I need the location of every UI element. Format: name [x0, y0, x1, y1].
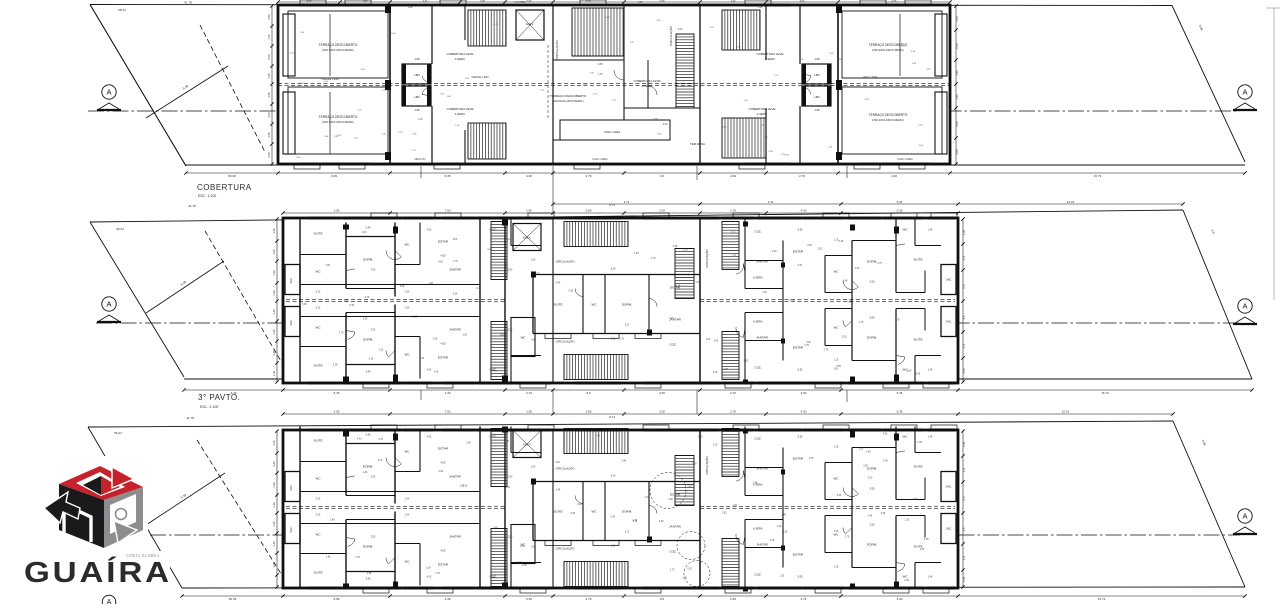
svg-text:5.35: 5.35 — [453, 294, 458, 296]
svg-text:SUITE: SUITE — [913, 338, 922, 342]
svg-text:15.79: 15.79 — [1101, 391, 1109, 395]
svg-text:A.SERV.: A.SERV. — [455, 57, 466, 61]
svg-text:5.15: 5.15 — [316, 499, 321, 501]
band 2 dimension speckle — [302, 232, 921, 376]
svg-text:WC: WC — [316, 477, 322, 481]
band 3 upper left unit walls — [300, 427, 480, 508]
band 2 section marker A right — [1233, 299, 1257, 324]
svg-text:DORM.: DORM. — [622, 303, 632, 307]
svg-text:2.00: 2.00 — [772, 251, 777, 253]
svg-text:WC: WC — [316, 270, 322, 274]
svg-text:2.55: 2.55 — [687, 569, 692, 571]
band 1 section marker A right — [1233, 85, 1257, 110]
svg-text:1.48: 1.48 — [669, 318, 674, 320]
svg-text:2.05: 2.05 — [334, 410, 340, 414]
svg-text:4.50: 4.50 — [441, 462, 446, 465]
band 2 left balconies — [285, 265, 300, 337]
svg-text:DORM.: DORM. — [363, 465, 373, 469]
svg-text:5.15: 5.15 — [316, 515, 321, 517]
svg-text:1.48: 1.48 — [595, 436, 600, 438]
svg-text:3.21: 3.21 — [625, 325, 630, 327]
svg-text:2.00: 2.00 — [508, 270, 513, 272]
svg-text:WALL 1.80M: WALL 1.80M — [863, 76, 877, 79]
svg-text:2.55: 2.55 — [673, 246, 678, 248]
svg-text:COBERTURA: COBERTURA — [197, 183, 252, 192]
svg-text:1.75: 1.75 — [859, 322, 864, 324]
band 2 upper left unit walls — [300, 220, 480, 301]
svg-text:1.48: 1.48 — [330, 520, 335, 522]
svg-text:WC: WC — [834, 270, 840, 274]
svg-text:WC: WC — [316, 533, 322, 537]
svg-text:3.44: 3.44 — [556, 283, 561, 285]
band 3 circulation labels — [553, 430, 575, 588]
svg-text:COBERTURA LEVE: COBERTURA LEVE — [633, 79, 660, 83]
svg-text:1.20: 1.20 — [462, 335, 467, 337]
svg-text:4.05: 4.05 — [427, 437, 432, 439]
svg-text:5.35: 5.35 — [798, 576, 803, 579]
svg-text:ESC.: 1:100: ESC.: 1:100 — [200, 405, 218, 409]
svg-text:WC: WC — [405, 560, 411, 564]
svg-text:4.36: 4.36 — [526, 174, 532, 178]
svg-text:SUITE: SUITE — [313, 439, 322, 443]
svg-text:7.50: 7.50 — [445, 209, 451, 213]
svg-text:2.50: 2.50 — [267, 14, 271, 20]
svg-text:3.05: 3.05 — [413, 317, 418, 319]
svg-text:2.50: 2.50 — [870, 524, 875, 527]
band 1 left unit cobertura leve rooms — [432, 5, 474, 164]
svg-text:2.75: 2.75 — [809, 458, 814, 460]
band 3 core full-height wall — [502, 427, 508, 589]
band 2 inner lot diagonal — [146, 231, 285, 368]
svg-text:WC: WC — [405, 450, 411, 454]
svg-text:CASA 1 AREA: CASA 1 AREA — [592, 158, 608, 161]
svg-text:A.SERV.: A.SERV. — [765, 57, 776, 61]
svg-text:A.SERV.: A.SERV. — [753, 276, 763, 280]
scan edge right — [1266, 8, 1280, 300]
svg-text:2.75: 2.75 — [365, 297, 370, 299]
svg-text:7.50: 7.50 — [445, 410, 451, 414]
svg-text:COBERTURA LEVE: COBERTURA LEVE — [748, 107, 775, 111]
svg-text:1.8: 1.8 — [962, 556, 966, 560]
band 2 bottom dimension row — [182, 388, 1253, 395]
svg-text:1.75: 1.75 — [619, 339, 624, 341]
svg-text:CIRCULAÇÃO: CIRCULAÇÃO — [556, 466, 576, 471]
svg-text:3.05: 3.05 — [453, 239, 458, 241]
band 1 section marker A left — [97, 85, 121, 110]
svg-text:SAC.: SAC. — [946, 485, 952, 489]
band 2 central lower wc room — [511, 318, 677, 357]
band 1 left stairs upper — [468, 10, 506, 46]
svg-text:5.35: 5.35 — [400, 286, 405, 288]
svg-text:5.00: 5.00 — [955, 121, 959, 127]
svg-text:1.50: 1.50 — [814, 108, 820, 112]
svg-text:SUITE: SUITE — [913, 465, 922, 469]
svg-text:WC: WC — [592, 510, 598, 514]
band 3 upper core walls — [316, 427, 541, 501]
svg-text:4.63: 4.63 — [678, 28, 683, 31]
band 2 central stair flight — [491, 222, 507, 380]
svg-text:SAC.: SAC. — [946, 320, 952, 324]
svg-text:2.55: 2.55 — [817, 249, 822, 251]
logo cube top face red arrow — [59, 466, 143, 500]
svg-text:CIRCULAÇÃO: CIRCULAÇÃO — [556, 339, 576, 344]
svg-text:56.44: 56.44 — [114, 431, 122, 435]
svg-text:5.35: 5.35 — [897, 209, 903, 213]
svg-text:LBO: LBO — [414, 95, 420, 99]
band 2 outer wall poche segments — [343, 217, 955, 385]
svg-text:2.40: 2.40 — [438, 471, 443, 473]
band 3 right balconies — [941, 472, 956, 544]
svg-text:1.25: 1.25 — [962, 229, 966, 235]
svg-text:6.30: 6.30 — [611, 269, 616, 271]
svg-text:2.55: 2.55 — [722, 513, 727, 515]
svg-text:2.40: 2.40 — [505, 487, 510, 489]
svg-text:CIRCULAÇÃO: CIRCULAÇÃO — [556, 546, 576, 551]
svg-text:56.44: 56.44 — [116, 227, 124, 231]
svg-text:1.48: 1.48 — [753, 483, 758, 485]
svg-text:4.05: 4.05 — [427, 370, 432, 372]
svg-text:5.35: 5.35 — [897, 391, 903, 395]
extension line x847 — [846, 166, 848, 402]
band 3 central block window sills — [545, 541, 661, 546]
svg-text:CIRCULAÇÃO: CIRCULAÇÃO — [704, 456, 709, 475]
svg-text:56.38: 56.38 — [229, 597, 237, 601]
svg-text:CIRCULAÇÃO: CIRCULAÇÃO — [704, 249, 709, 268]
band 2 elevator room — [513, 224, 541, 251]
svg-text:SUITE: SUITE — [913, 258, 922, 262]
svg-text:3.18: 3.18 — [426, 567, 431, 569]
svg-text:3.05: 3.05 — [466, 443, 471, 445]
band 3 central stairs lower — [564, 562, 628, 587]
svg-text:4.00: 4.00 — [801, 209, 807, 213]
svg-text:5.15: 5.15 — [316, 308, 321, 310]
svg-text:1.48: 1.48 — [928, 437, 933, 439]
svg-text:COZ.: COZ. — [754, 437, 761, 441]
svg-text:WC: WC — [316, 326, 322, 330]
svg-text:SAC.: SAC. — [289, 277, 293, 283]
svg-text:1.8: 1.8 — [962, 256, 966, 260]
svg-text:2.76: 2.76 — [801, 597, 807, 601]
band 2 lower left unit walls — [300, 301, 480, 382]
svg-text:COBERTURA LEVE: COBERTURA LEVE — [446, 107, 473, 111]
svg-text:2.00: 2.00 — [508, 330, 513, 332]
svg-text:6.5: 6.5 — [962, 496, 966, 500]
svg-text:ELEV.: ELEV. — [526, 22, 534, 26]
band 3 vertical dimension column left — [272, 429, 279, 588]
svg-text:1.50: 1.50 — [405, 499, 410, 501]
band 2 windows bottom — [308, 382, 923, 384]
svg-text:1.50: 1.50 — [526, 410, 532, 414]
band 1 central extra walls — [553, 60, 700, 140]
svg-text:2.79: 2.79 — [586, 174, 592, 178]
svg-text:2.75: 2.75 — [845, 537, 850, 539]
svg-text:(USO EXCLUSIVO RESID.): (USO EXCLUSIVO RESID.) — [322, 48, 354, 52]
svg-text:1.48: 1.48 — [917, 442, 922, 444]
logo cube right face gray arrow — [104, 487, 143, 548]
svg-text:6.71: 6.71 — [609, 415, 615, 419]
svg-text:1.48: 1.48 — [843, 281, 848, 283]
band 3 dimension speckle — [326, 434, 929, 582]
svg-text:JANTAR: JANTAR — [669, 525, 682, 529]
svg-text:2.00: 2.00 — [420, 358, 425, 360]
svg-text:2.75: 2.75 — [651, 258, 656, 260]
svg-text:2.40: 2.40 — [366, 578, 371, 581]
svg-text:(USO EXCLUSIVO RESID.): (USO EXCLUSIVO RESID.) — [872, 118, 904, 122]
band 2 centerline A-A — [96, 322, 1240, 324]
svg-text:1.45: 1.45 — [955, 70, 959, 76]
svg-text:1.50: 1.50 — [405, 292, 410, 294]
svg-text:1.60: 1.60 — [272, 461, 276, 467]
svg-text:15.72: 15.72 — [1098, 597, 1106, 601]
band 2 right balconies — [941, 265, 956, 337]
svg-text:2.00: 2.00 — [433, 339, 438, 341]
svg-text:WC: WC — [834, 533, 840, 537]
svg-text:4.05: 4.05 — [427, 577, 432, 579]
band 1 left terrace walls — [283, 5, 391, 164]
band 1 window sill protrusions — [294, 0, 931, 169]
svg-text:2.55: 2.55 — [371, 270, 376, 272]
band 2 right pair units — [700, 218, 941, 385]
svg-text:15.79: 15.79 — [1094, 174, 1102, 178]
svg-text:5.35: 5.35 — [897, 200, 903, 204]
band 3 lot boundary — [88, 415, 1245, 588]
svg-text:2.40: 2.40 — [357, 438, 362, 440]
svg-text:1.48: 1.48 — [428, 283, 433, 285]
band 2 section marker A left — [97, 297, 121, 322]
svg-text:SUITE: SUITE — [553, 303, 562, 307]
svg-text:5.35: 5.35 — [798, 436, 803, 439]
svg-text:2.00: 2.00 — [508, 477, 513, 479]
svg-text:4.5: 4.5 — [962, 315, 966, 319]
svg-text:ESTAR: ESTAR — [793, 553, 804, 557]
svg-text:1.50: 1.50 — [405, 308, 410, 310]
svg-text:JANTAR: JANTAR — [449, 268, 462, 272]
svg-text:1.50: 1.50 — [526, 209, 532, 213]
svg-text:2.55: 2.55 — [371, 330, 376, 332]
svg-text:2.75: 2.75 — [731, 233, 736, 235]
svg-text:3° PAVTO.: 3° PAVTO. — [198, 393, 240, 402]
svg-text:2.40: 2.40 — [476, 288, 481, 290]
svg-text:2.50: 2.50 — [870, 317, 875, 320]
svg-text:9.6: 9.6 — [660, 174, 665, 178]
band 2 window sill protrusions — [363, 213, 957, 388]
band 2 circulation labels — [553, 218, 575, 383]
svg-text:2.79: 2.79 — [526, 391, 532, 395]
band 1 right terrace walls — [836, 5, 947, 164]
svg-text:4.05: 4.05 — [916, 374, 921, 376]
band 3 lower core walls — [316, 515, 541, 589]
svg-text:CASA 1 AREA: CASA 1 AREA — [897, 158, 913, 161]
band 3 right pair units — [700, 427, 941, 592]
svg-text:1.8: 1.8 — [962, 344, 966, 348]
band 1 central stair column — [676, 34, 694, 108]
svg-text:5.15: 5.15 — [316, 292, 321, 294]
svg-text:4.5: 4.5 — [962, 527, 966, 531]
svg-text:TERRAÇO DESCOBERTO: TERRAÇO DESCOBERTO — [550, 94, 587, 98]
svg-text:2.55: 2.55 — [367, 573, 372, 575]
svg-text:2.40: 2.40 — [883, 461, 888, 463]
svg-text:A.SERV.: A.SERV. — [757, 112, 768, 116]
svg-text:MEIO FIO: MEIO FIO — [415, 158, 426, 161]
svg-text:4.36: 4.36 — [445, 391, 451, 395]
svg-text:3.05: 3.05 — [687, 487, 692, 489]
svg-text:5.35: 5.35 — [798, 229, 803, 232]
band 3 central rooms crossing party line — [531, 476, 700, 548]
svg-text:WC: WC — [405, 353, 411, 357]
svg-text:4.05: 4.05 — [555, 462, 560, 464]
svg-text:1.48: 1.48 — [723, 369, 728, 371]
svg-text:TERRAÇO DESCOBERTO: TERRAÇO DESCOBERTO — [869, 113, 908, 117]
svg-text:1.60: 1.60 — [272, 562, 276, 568]
svg-text:4.00: 4.00 — [801, 391, 807, 395]
svg-text:4.05: 4.05 — [438, 261, 443, 263]
svg-text:JANTAR: JANTAR — [449, 535, 462, 539]
svg-text:3.05: 3.05 — [847, 301, 852, 303]
svg-text:1.20: 1.20 — [379, 349, 384, 351]
svg-text:1.40: 1.40 — [272, 270, 276, 276]
svg-text:2.05: 2.05 — [334, 209, 340, 213]
svg-text:2.00: 2.00 — [868, 478, 873, 480]
svg-text:DORM.: DORM. — [867, 336, 877, 340]
svg-text:1.48: 1.48 — [777, 526, 782, 528]
svg-text:5.35: 5.35 — [842, 337, 847, 339]
svg-text:1.80: 1.80 — [363, 0, 368, 3]
svg-text:1.48: 1.48 — [621, 460, 626, 462]
svg-text:SAC.: SAC. — [289, 484, 293, 490]
svg-text:WC: WC — [592, 303, 598, 307]
svg-text:2.40: 2.40 — [362, 232, 367, 234]
svg-text:CIRCULAÇÃO: CIRCULAÇÃO — [556, 259, 576, 264]
svg-text:5.35: 5.35 — [526, 597, 532, 601]
svg-text:GUAÍRA: GUAÍRA — [24, 555, 172, 589]
band 2 central rooms crossing party line — [531, 269, 700, 341]
band 3 central right stair flight — [675, 456, 694, 506]
svg-text:6.99: 6.99 — [334, 597, 340, 601]
logo white backing — [18, 456, 170, 588]
svg-text:1.45: 1.45 — [955, 94, 959, 100]
svg-text:A: A — [106, 300, 111, 309]
band 1 left stairs lower — [468, 123, 506, 159]
logo GUAIRA wordmark — [24, 555, 172, 589]
svg-text:2.00: 2.00 — [744, 361, 749, 363]
svg-text:1.40: 1.40 — [272, 309, 276, 315]
svg-text:JANTAR: JANTAR — [449, 475, 462, 479]
svg-text:DORM.: DORM. — [363, 545, 373, 549]
svg-text:2.40: 2.40 — [366, 434, 371, 437]
svg-text:1.20: 1.20 — [713, 445, 718, 447]
extension line x553 — [552, 166, 554, 414]
svg-text:2.50: 2.50 — [870, 281, 875, 284]
svg-text:1.48: 1.48 — [363, 472, 368, 474]
svg-text:5.35: 5.35 — [586, 0, 591, 3]
svg-text:2.40: 2.40 — [610, 516, 615, 518]
svg-text:2.00: 2.00 — [659, 410, 665, 414]
band 2 lot boundary — [90, 203, 1252, 379]
svg-text:TERRAÇO DESCOBERTO: TERRAÇO DESCOBERTO — [319, 115, 358, 119]
svg-text:WC: WC — [903, 575, 909, 579]
svg-text:2.40: 2.40 — [706, 339, 711, 341]
svg-text:1.25: 1.25 — [962, 368, 966, 374]
svg-text:2.40: 2.40 — [378, 460, 383, 462]
svg-text:5.35: 5.35 — [806, 342, 811, 344]
svg-text:5.35: 5.35 — [834, 531, 839, 533]
svg-text:CASA 1 AREA: CASA 1 AREA — [604, 131, 620, 134]
band 2 building outer walls — [283, 218, 958, 383]
extension line x421 — [420, 166, 422, 400]
svg-text:2.00: 2.00 — [907, 371, 912, 373]
svg-text:WC: WC — [903, 228, 909, 232]
svg-text:6.39: 6.39 — [331, 174, 337, 178]
svg-text:2.75: 2.75 — [824, 349, 829, 351]
band 3 inner lot diagonal — [146, 440, 290, 588]
svg-text:1.75: 1.75 — [339, 332, 344, 334]
svg-text:9.6: 9.6 — [586, 391, 591, 395]
band 1 party wall dashed — [278, 84, 950, 86]
svg-text:4.05: 4.05 — [924, 539, 929, 541]
svg-text:1.40: 1.40 — [272, 482, 276, 488]
svg-text:SAC.: SAC. — [946, 278, 952, 282]
svg-text:2.76: 2.76 — [730, 391, 736, 395]
svg-text:2.40: 2.40 — [797, 265, 802, 267]
band 1 left unit LBO rooms — [402, 57, 431, 112]
svg-text:2.40: 2.40 — [366, 227, 371, 230]
svg-text:1.75: 1.75 — [598, 74, 603, 76]
svg-text:4.00: 4.00 — [891, 174, 897, 178]
band 1 vertical dimension column left — [267, 4, 274, 165]
svg-text:ESTAR: ESTAR — [793, 346, 804, 350]
svg-text:1.26: 1.26 — [272, 440, 276, 446]
band 3 vertical dimension column right — [961, 429, 966, 588]
svg-text:4.00: 4.00 — [897, 597, 903, 601]
svg-text:ESTAR: ESTAR — [670, 493, 681, 497]
band 1 vertical dimension column right — [954, 4, 959, 165]
svg-text:COZ.: COZ. — [669, 343, 676, 347]
svg-text:2.40: 2.40 — [366, 371, 371, 374]
svg-text:1.50: 1.50 — [414, 108, 420, 112]
svg-text:2.79: 2.79 — [586, 597, 592, 601]
svg-text:3.18: 3.18 — [770, 540, 775, 542]
svg-text:2.75: 2.75 — [535, 273, 540, 275]
svg-text:1.48: 1.48 — [520, 546, 525, 548]
svg-text:ELEV.: ELEV. — [523, 443, 531, 447]
svg-text:2.75: 2.75 — [504, 441, 509, 443]
band 1 top dimension row — [276, 0, 951, 4]
svg-text:1.75: 1.75 — [355, 557, 360, 559]
svg-text:2.00: 2.00 — [659, 521, 664, 523]
svg-text:2.76: 2.76 — [768, 200, 774, 204]
svg-text:5.35: 5.35 — [676, 286, 681, 288]
svg-text:2.75: 2.75 — [877, 263, 882, 265]
svg-text:1.50: 1.50 — [732, 256, 737, 258]
band 3 building outer walls — [283, 430, 958, 588]
logo cube left face black arrow — [44, 484, 104, 548]
band 3 window sill protrusions — [363, 425, 957, 593]
band 3 furniture dashed circles — [650, 473, 710, 587]
svg-text:2.80: 2.80 — [586, 209, 592, 213]
svg-text:2.00: 2.00 — [508, 537, 513, 539]
band 3 lower left unit walls — [300, 508, 480, 589]
svg-text:5.35: 5.35 — [798, 369, 803, 372]
svg-text:COZ.: COZ. — [754, 573, 761, 577]
svg-text:LBO: LBO — [814, 95, 820, 99]
svg-text:2.00: 2.00 — [668, 499, 673, 501]
svg-text:1.50: 1.50 — [325, 265, 330, 267]
band 3 central stair flight — [491, 429, 507, 587]
band 1 right unit cobertura leve rooms — [748, 5, 800, 164]
svg-text:2.76: 2.76 — [799, 174, 805, 178]
svg-text:1.80: 1.80 — [414, 57, 420, 61]
band 2 central block window sills — [545, 334, 661, 339]
